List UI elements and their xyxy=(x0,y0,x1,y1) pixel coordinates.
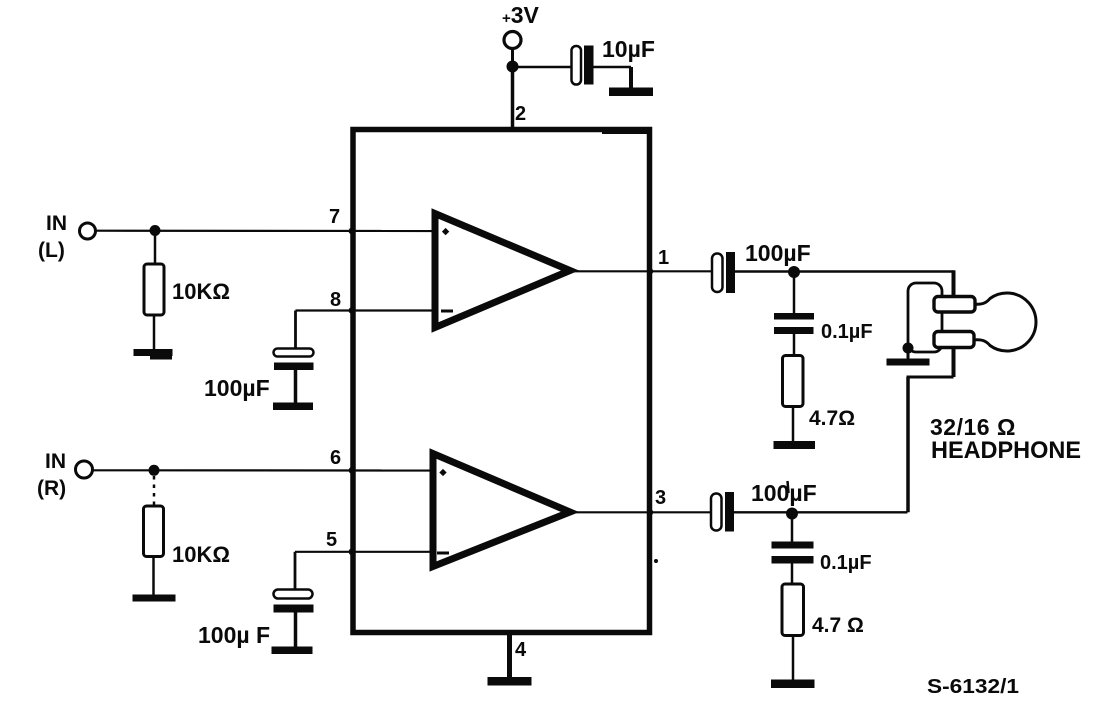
capacitor C3 100uF xyxy=(712,252,735,293)
wire junction to R1 xyxy=(154,235,157,264)
resistor R4 4.7 ohm xyxy=(782,584,804,636)
svg-text:(R): (R) xyxy=(37,477,66,500)
wire IN(L) to pin 7 xyxy=(96,230,435,233)
svg-text:IN: IN xyxy=(45,450,66,473)
wire jack bottom horizontal xyxy=(907,376,954,379)
wire jack to ground xyxy=(907,348,910,359)
artifact dot near pin 7 wire xyxy=(462,226,466,230)
ground G6 xyxy=(133,595,176,602)
input terminal IN (L) xyxy=(80,223,96,239)
capacitor C5 100uF xyxy=(711,492,734,532)
ground G8 xyxy=(771,680,815,689)
wire R1 to ground xyxy=(153,315,156,349)
svg-text:0.1µF: 0.1µF xyxy=(821,321,873,343)
junction blob pin5 border xyxy=(349,548,356,555)
ground G7 xyxy=(272,647,313,655)
wire C7 to R4 xyxy=(791,564,794,585)
capacitor C7 0.1uF xyxy=(772,542,814,564)
wire R4 to ground xyxy=(792,636,795,681)
wire L output down to jack tip xyxy=(952,270,956,299)
op-amp U1a xyxy=(435,214,570,328)
+3V terminal xyxy=(504,32,521,67)
svg-text:7: 7 xyxy=(329,206,340,228)
resistor R1 10K xyxy=(144,264,164,315)
wire pin 3 output xyxy=(574,511,711,513)
svg-text:4.7Ω: 4.7Ω xyxy=(809,407,855,430)
svg-text:10µF: 10µF xyxy=(602,36,655,62)
headphone pad ring xyxy=(934,332,974,348)
junction blob pin6 border xyxy=(349,467,356,474)
headphone pad tip xyxy=(934,297,975,313)
C5 tick artifact xyxy=(788,481,789,493)
op-amp U1b xyxy=(433,454,570,567)
svg-text:5: 5 xyxy=(326,529,337,551)
svg-text:0.1µF: 0.1µF xyxy=(820,552,872,574)
svg-text:HEADPHONE: HEADPHONE xyxy=(931,437,1081,464)
resistor R3 10K xyxy=(144,506,164,557)
U1a plus input mark xyxy=(442,228,449,235)
junction blob pin7 border xyxy=(349,228,356,235)
ground G3 xyxy=(273,403,313,411)
ground G9 xyxy=(488,677,532,686)
dashed wire junction to R3 xyxy=(153,476,156,506)
wire pin 1 output xyxy=(574,270,712,272)
headphone label xyxy=(930,414,1081,464)
junction blob pin8 border xyxy=(349,307,356,314)
ground G2 xyxy=(134,349,173,360)
artifact dot near pin 3 xyxy=(654,559,658,563)
wire +3V to pin 2 xyxy=(511,66,515,128)
ground G1 xyxy=(609,88,653,97)
wire R3 to ground xyxy=(152,557,155,596)
svg-text:100µF: 100µF xyxy=(204,375,270,401)
junction blob pin3 border xyxy=(647,509,653,515)
capacitor C1 10uF xyxy=(572,46,632,89)
wire C3 to headphone xyxy=(735,270,954,272)
capacitor C4 0.1uF xyxy=(774,313,814,334)
svg-text:2: 2 xyxy=(515,103,526,125)
U1b plus input mark xyxy=(439,469,446,476)
headphone jack body xyxy=(908,283,942,352)
svg-text:4: 4 xyxy=(515,639,527,661)
svg-text:S-6132/1: S-6132/1 xyxy=(927,676,1019,698)
ground G4 xyxy=(774,441,816,449)
svg-text:3: 3 xyxy=(655,487,666,509)
svg-text:IN: IN xyxy=(46,212,67,235)
node +3V junction xyxy=(507,61,519,73)
svg-text:8: 8 xyxy=(330,289,341,311)
wire C4 to R2 xyxy=(793,334,796,356)
svg-text:6: 6 xyxy=(330,447,341,469)
wire pin 5 to C6 xyxy=(295,552,433,590)
IN (R) label xyxy=(37,450,66,500)
wire R2 to ground xyxy=(792,407,795,442)
U1b minus input mark xyxy=(437,552,449,555)
wire jack to R output xyxy=(906,377,910,512)
wire junction to C7 xyxy=(791,518,794,542)
node R input junction xyxy=(149,465,160,476)
wire pin 8 to C2 xyxy=(296,311,436,350)
IC box U1 xyxy=(353,130,650,633)
svg-text:100µF: 100µF xyxy=(745,240,811,266)
headphone driver bulb xyxy=(973,293,1036,351)
node R output junction xyxy=(786,508,798,520)
wire C5 to headphone xyxy=(734,511,908,513)
IN (L) label xyxy=(38,212,67,262)
svg-text:10KΩ: 10KΩ xyxy=(172,542,230,567)
svg-text:1: 1 xyxy=(658,247,669,269)
wire junction to C4 xyxy=(793,277,796,313)
U1a minus input mark xyxy=(441,310,453,313)
pin 4 stub xyxy=(507,635,512,677)
node L input junction xyxy=(150,225,161,236)
capacitor C6 100uF xyxy=(274,590,314,648)
svg-text:100µF: 100µF xyxy=(751,480,817,506)
node L output junction xyxy=(788,266,800,278)
ground G5 xyxy=(887,359,930,366)
wire +3V to C1 xyxy=(513,66,572,69)
capacitor C2 100uF xyxy=(274,349,314,404)
wire IN(R) to pin 6 xyxy=(93,469,433,471)
svg-text:(L): (L) xyxy=(38,239,65,262)
node headphone ground junction xyxy=(903,343,914,354)
wire jack ring down xyxy=(952,347,956,378)
input terminal IN (R) xyxy=(76,461,93,478)
svg-text:100µ F: 100µ F xyxy=(198,622,270,648)
junction blob pin1 border xyxy=(647,268,653,274)
resistor R2 4.7 ohm xyxy=(783,356,804,407)
svg-text:10KΩ: 10KΩ xyxy=(172,279,230,304)
svg-text:4.7 Ω: 4.7 Ω xyxy=(812,614,864,637)
